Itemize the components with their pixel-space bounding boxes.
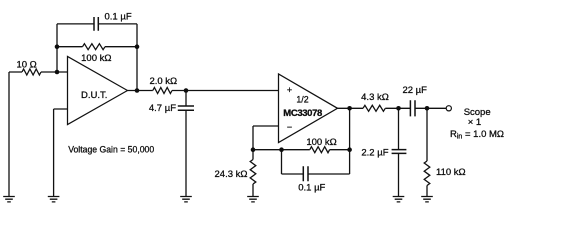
node feedback bus right: [347, 147, 352, 152]
ground G2: [48, 197, 60, 202]
op-amp U1 D.U.T.: [68, 57, 128, 125]
label R3 2.0k: [149, 76, 177, 87]
label voltage gain: [68, 145, 154, 156]
label R5 100k: [306, 137, 336, 148]
svg-text:Scope: Scope: [464, 107, 491, 118]
resistor R6 4.3k: [363, 105, 385, 111]
terminal scope: [446, 106, 451, 111]
svg-text:100 kΩ: 100 kΩ: [306, 137, 336, 148]
capacitor C1 0.1uF plates: [94, 17, 98, 31]
node input junction: [55, 70, 60, 75]
svg-text:0.1 µF: 0.1 µF: [105, 11, 132, 22]
svg-text:2.2 µF: 2.2 µF: [361, 148, 388, 159]
svg-text:× 1: × 1: [468, 117, 481, 128]
label C5 2.2uF: [361, 148, 388, 159]
svg-text:0.1 µF: 0.1 µF: [298, 183, 325, 194]
svg-text:−: −: [287, 122, 292, 132]
node 0.1uF tap: [279, 147, 284, 152]
label U2 half: [296, 95, 308, 105]
label U1 DUT: [81, 90, 107, 101]
capacitor C4 22uF plates: [410, 100, 415, 116]
node 2.2uF tap: [396, 106, 401, 111]
svg-text:100 kΩ: 100 kΩ: [81, 53, 111, 64]
label Rin: [450, 129, 504, 141]
label C1 0.1uF: [105, 11, 132, 22]
label scope: [464, 107, 491, 118]
wire top capacitor branch: [57, 23, 137, 25]
label C4 22uF: [402, 85, 427, 96]
svg-text:24.3 kΩ: 24.3 kΩ: [215, 169, 248, 180]
resistor R5 100k: [310, 147, 330, 153]
ground G4: [247, 197, 259, 202]
capacitor C5 2.2uF plates: [392, 150, 407, 154]
resistor R4 24.3k: [250, 160, 256, 185]
label C2 4.7uF: [149, 103, 176, 114]
svg-text:4.3 kΩ: 4.3 kΩ: [361, 92, 389, 103]
label R1 10ohm: [16, 59, 36, 70]
label U2 minus: [287, 122, 292, 132]
wire 4.7uF to ground: [185, 110, 187, 196]
wire 2.2uF to ground: [398, 153, 400, 196]
label R7 110k: [436, 167, 466, 178]
node DUT output: [135, 88, 140, 93]
wire feedback bus horizontal: [253, 149, 350, 151]
svg-text:+: +: [287, 85, 292, 95]
wire 2.2uF top: [398, 108, 400, 149]
wire 110k top: [426, 108, 428, 161]
wire inverting input stub: [253, 126, 279, 150]
svg-text:22 µF: 22 µF: [402, 85, 427, 96]
wire 0.1uF branch: [282, 150, 350, 174]
op-amp U2 MC33078: [279, 74, 338, 143]
label C3 0.1uF: [298, 183, 325, 194]
svg-text:110 kΩ: 110 kΩ: [436, 167, 466, 178]
node U2 output: [347, 106, 352, 111]
node 110k tap: [425, 106, 430, 111]
wire input ground drop: [8, 72, 10, 196]
resistor R7 110k: [424, 161, 430, 186]
capacitor C3 0.1uF plates: [303, 166, 308, 181]
capacitor C2 4.7uF plates: [178, 106, 194, 110]
label times one: [468, 117, 481, 128]
wire 100k feedback horizontal: [57, 46, 137, 48]
node feedback left: [55, 44, 60, 49]
node inverting bus left: [251, 147, 256, 152]
svg-text:1/2: 1/2: [296, 95, 308, 105]
ground G3: [180, 197, 192, 202]
wire 110k to ground: [426, 186, 428, 197]
resistor 10 ohm: [22, 69, 41, 75]
ground G1: [3, 197, 15, 202]
node feedback right: [135, 44, 140, 49]
svg-text:2.0 kΩ: 2.0 kΩ: [149, 76, 177, 87]
node 4.7uF tap: [184, 88, 189, 93]
resistor R3 2.0k: [153, 88, 172, 94]
wire noninverting input stub: [54, 109, 68, 196]
wire 4.7uF top: [185, 91, 187, 107]
wire input horizontal: [9, 71, 68, 73]
label U2 MC33078: [283, 108, 322, 119]
resistor R2 100k: [83, 44, 106, 50]
svg-text:D.U.T.: D.U.T.: [81, 90, 107, 101]
label R2 100k: [81, 53, 111, 64]
label U2 plus: [287, 85, 292, 95]
wire feedback right vertical: [136, 24, 138, 91]
ground G6: [421, 197, 433, 202]
svg-text:4.7 µF: 4.7 µF: [149, 103, 176, 114]
wire 24.3k to ground: [252, 150, 254, 196]
wire feedback left vertical: [56, 24, 58, 72]
wire feedback vertical to output: [349, 108, 351, 149]
wire output run: [338, 107, 447, 109]
svg-text:MC33078: MC33078: [283, 108, 322, 119]
svg-text:Voltage Gain = 50,000: Voltage Gain = 50,000: [68, 145, 154, 156]
label R4 24.3k: [215, 169, 248, 180]
label R6 4.3k: [361, 92, 389, 103]
ground G5: [393, 197, 405, 202]
svg-text:10 Ω: 10 Ω: [16, 59, 36, 70]
wire DUT output run: [128, 90, 279, 92]
